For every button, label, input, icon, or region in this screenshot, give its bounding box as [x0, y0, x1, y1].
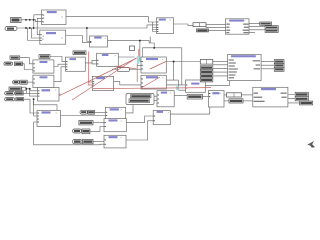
mux F1	[200, 60, 213, 65]
wire R2 to S1	[90, 127, 104, 132]
wire	[17, 15, 300, 145]
wire U1 out to V1	[203, 96, 209, 98]
small block sb2	[197, 29, 209, 32]
wire S2 out to W1	[126, 121, 153, 140]
small block O2b	[16, 98, 24, 101]
block V1	[208, 91, 224, 108]
small oval A2	[5, 27, 17, 31]
wire K1 in stub	[112, 68, 117, 70]
wire routing rectangle	[143, 48, 182, 57]
block B1	[42, 10, 67, 25]
const row2	[200, 66, 213, 70]
wire O2 to Q2	[24, 99, 37, 113]
oval R2	[73, 129, 82, 133]
wire W1 out to V1 bottom	[170, 107, 210, 114]
small block BL1	[9, 87, 26, 91]
wire M2 out to M1b	[54, 67, 66, 82]
block M1	[33, 60, 54, 73]
small block R1	[79, 121, 93, 125]
scope RT3	[300, 101, 313, 105]
small block U1	[187, 94, 202, 99]
small source block A1	[11, 18, 22, 23]
wire container rows to T2	[150, 96, 158, 101]
block N1	[97, 53, 119, 66]
wire Q2 out to Z1	[61, 115, 106, 117]
small block R3b	[83, 139, 94, 143]
wire B2 out to M0	[66, 36, 90, 43]
mux2 top	[193, 23, 206, 27]
block D2	[228, 54, 262, 80]
block Y1	[141, 57, 166, 73]
small block H1	[10, 56, 20, 60]
scope RT2	[295, 97, 308, 101]
block P1	[92, 76, 113, 90]
wire red vertical	[88, 52, 90, 85]
wire BL1 to Q1	[22, 89, 38, 91]
oval ZL	[80, 110, 87, 114]
wire F rows to D2	[213, 65, 228, 76]
wire Q2 in2	[34, 99, 37, 116]
wire red diagonal steep	[72, 58, 137, 100]
small oval feeding M2	[13, 80, 20, 84]
wire K1 out arrow	[129, 68, 141, 70]
node junction dots	[25, 19, 175, 100]
port tick marks	[33, 14, 210, 145]
wire Z1 out up	[126, 105, 133, 113]
wire B1 out to C1	[66, 17, 157, 22]
wire Y1 in2 stub	[137, 64, 141, 66]
wire R3 to S2	[93, 141, 104, 143]
block B2	[40, 30, 66, 44]
wire M0 drop from A2 line	[87, 28, 90, 42]
wire red vertical near cyan	[137, 49, 139, 82]
wire B2 inputs	[28, 28, 40, 41]
wire M0 branch down to Y1	[140, 41, 141, 62]
wire M1b out to N1	[85, 60, 96, 64]
block M1b	[66, 57, 86, 71]
small block sb3	[229, 99, 243, 103]
wire C1 out to mux	[174, 24, 194, 25]
wire vertical to T3	[182, 48, 186, 85]
red overlay lines	[59, 49, 211, 100]
block Y2	[141, 75, 166, 89]
block T3	[186, 80, 206, 92]
container with two labels	[126, 94, 154, 105]
wire R1 to S1	[93, 122, 104, 124]
wire M1 out to M1b	[54, 64, 66, 66]
const row4	[200, 74, 213, 78]
small block H3	[15, 62, 23, 66]
wire Q1 out stub	[59, 93, 61, 95]
wire B1 inputs	[34, 15, 42, 28]
wire red horizontal	[93, 88, 211, 89]
block M0	[90, 36, 108, 47]
wire sb3 to D3	[243, 100, 253, 102]
wire S1 out to W1	[126, 116, 153, 123]
oval R3	[73, 139, 82, 143]
wire Q1 bottom to Q2 top	[34, 101, 58, 111]
scope E2	[265, 26, 278, 29]
wire M0 out	[108, 37, 155, 48]
wire P1 out to T3 line	[114, 82, 182, 85]
block W1	[153, 111, 170, 125]
wire D1 outs	[249, 23, 265, 32]
small pill K1	[117, 68, 129, 72]
mux cell2b	[227, 93, 242, 97]
block S2	[104, 135, 126, 148]
block D3	[253, 87, 288, 107]
wire red diag Y2	[141, 77, 160, 88]
const row5	[200, 78, 213, 82]
wire junction link	[25, 89, 27, 94]
block C1	[157, 18, 174, 34]
small block R2b	[82, 129, 90, 134]
scope E3	[265, 29, 278, 32]
wire mux to D1	[206, 23, 226, 25]
wire D1 in2	[206, 26, 226, 27]
wire A1 to B1	[21, 20, 42, 22]
mouse cursor	[307, 141, 315, 148]
block Z1	[105, 107, 125, 119]
scope RT1	[295, 92, 308, 96]
wire T2 out to U1	[174, 95, 187, 97]
small tag block above M1b	[73, 51, 86, 55]
tiny box	[130, 46, 135, 51]
block S1	[104, 119, 126, 132]
block Q1	[38, 88, 60, 102]
wire red diag right of N1	[116, 66, 137, 69]
oval O2	[5, 98, 15, 101]
wire red stubs into P1	[88, 82, 92, 85]
oval O1	[5, 92, 15, 95]
wire cell2b to D3	[242, 94, 253, 96]
block M2	[33, 75, 54, 87]
wire N1 out	[118, 56, 134, 58]
wire Y1 branch down	[166, 62, 187, 91]
wire V1 out2 to sb3	[224, 100, 229, 102]
wire F1 to D2	[213, 61, 228, 63]
wire ZL to Z1	[95, 111, 106, 113]
small block ZLb	[88, 110, 95, 114]
wire sb2 to D1	[208, 29, 225, 31]
wire V1 out to cell2b	[224, 94, 227, 96]
wire T1 out	[50, 57, 66, 62]
scope G1	[274, 60, 284, 64]
wire red diagonal main	[59, 58, 137, 96]
wire H3 to M1	[22, 64, 33, 70]
small block T1	[39, 55, 50, 59]
scope G3	[274, 67, 284, 71]
wire to M2	[27, 81, 33, 83]
scope E1	[260, 22, 272, 25]
small oval H2	[4, 62, 13, 65]
cyan highlight segments	[137, 56, 139, 64]
wire D2 outs	[261, 61, 274, 69]
block D1	[226, 19, 250, 34]
wire red diag Y1	[150, 62, 166, 70]
small block feeding M2	[20, 80, 27, 84]
scope G2	[274, 64, 284, 68]
block T2	[157, 91, 174, 107]
small block O1b	[15, 92, 23, 95]
wire Q1 in3	[30, 89, 38, 96]
const row3	[200, 70, 213, 74]
wire H1 out	[20, 58, 33, 64]
wire A2 long to C1	[17, 25, 157, 28]
wire D3 outs	[288, 95, 300, 103]
block Q2	[37, 111, 61, 127]
wire Y1 out to F1	[166, 61, 200, 63]
wire T3 out to D2 bottom	[205, 81, 229, 86]
wire C1 input knot	[153, 22, 157, 32]
wire Q2 left down long bottom	[34, 122, 104, 145]
wire O1 to Q1	[23, 92, 37, 94]
